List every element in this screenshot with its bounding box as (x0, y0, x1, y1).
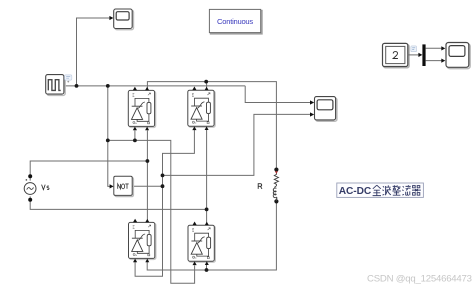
NOT block (114, 176, 134, 196)
arrowhead into scope3 top (310, 100, 314, 104)
wire gate branch lower (108, 130, 195, 283)
svg-text:Continuous: Continuous (217, 17, 253, 26)
thyristor block 2 (188, 87, 215, 131)
arrowhead into demux (418, 53, 422, 57)
wire to scope3 bottom (163, 114, 311, 175)
junction NOT output (161, 184, 165, 188)
CJK char bo (383, 185, 391, 195)
wire 2 to demux (408, 54, 419, 56)
wire Vs minus rail (30, 127, 206, 225)
arrowhead into scope1 (109, 16, 113, 20)
pulse generator block (46, 75, 65, 96)
junction R bottom node (274, 199, 278, 203)
arrowhead scope2 in2 (441, 59, 445, 63)
CJK char quan (373, 185, 381, 195)
label R (258, 184, 262, 189)
junction top rail node (204, 80, 208, 84)
arrowhead into scope3 bottom (310, 112, 314, 116)
arrowhead scope2 in1 (441, 46, 445, 50)
wire pulse line (64, 85, 245, 87)
annotation AC-DC box (337, 183, 424, 197)
junction gate Q1 lower (133, 139, 137, 143)
wire NOT output (132, 185, 162, 187)
junction DC minus node (205, 268, 209, 272)
scope2 block (446, 43, 470, 69)
scope3 block (315, 97, 337, 122)
sample time badge demux (411, 46, 417, 52)
junction gate branch (106, 139, 110, 143)
wire DC minus rail (147, 201, 276, 270)
junction Vs minus node (205, 208, 209, 212)
thyristor block 3 (129, 219, 156, 263)
wire demux out2 (426, 60, 442, 62)
demux bar (422, 44, 425, 66)
wire Vs plus rail (30, 130, 147, 222)
junction R top node (274, 168, 278, 172)
wire top rail (147, 82, 276, 170)
junction Vs plus node (146, 159, 150, 163)
scope1 block (114, 9, 134, 30)
constant block 2 (383, 43, 410, 67)
wire to NOT input (108, 86, 110, 186)
powergui Continuous block (209, 9, 262, 33)
thyristor block 1 (128, 87, 155, 131)
CJK char qi (412, 186, 421, 196)
sample time badge pulse (65, 75, 72, 83)
junction pulse-to-NOT (106, 84, 110, 88)
svg-text:CSDN @qq_1254664473: CSDN @qq_1254664473 (367, 274, 472, 285)
arrowhead into NOT (110, 184, 114, 188)
wire to scope1 (77, 18, 110, 86)
CJK char zheng (392, 185, 400, 195)
series RL branch R (273, 172, 278, 201)
svg-text:AC-DC: AC-DC (339, 186, 372, 197)
label Vs (42, 185, 49, 190)
thyristor block 4 (188, 222, 215, 266)
junction NOT net to scope3 (161, 174, 165, 178)
wire demux out1 (426, 47, 442, 49)
wire to scope3 top (245, 86, 310, 103)
wire NOT net vertical (135, 129, 194, 276)
CJK char liu (402, 185, 410, 195)
red polarity mark on R branch (275, 171, 278, 174)
junction pulse-to-scope1 (75, 84, 79, 88)
AC source Vs (24, 174, 36, 202)
